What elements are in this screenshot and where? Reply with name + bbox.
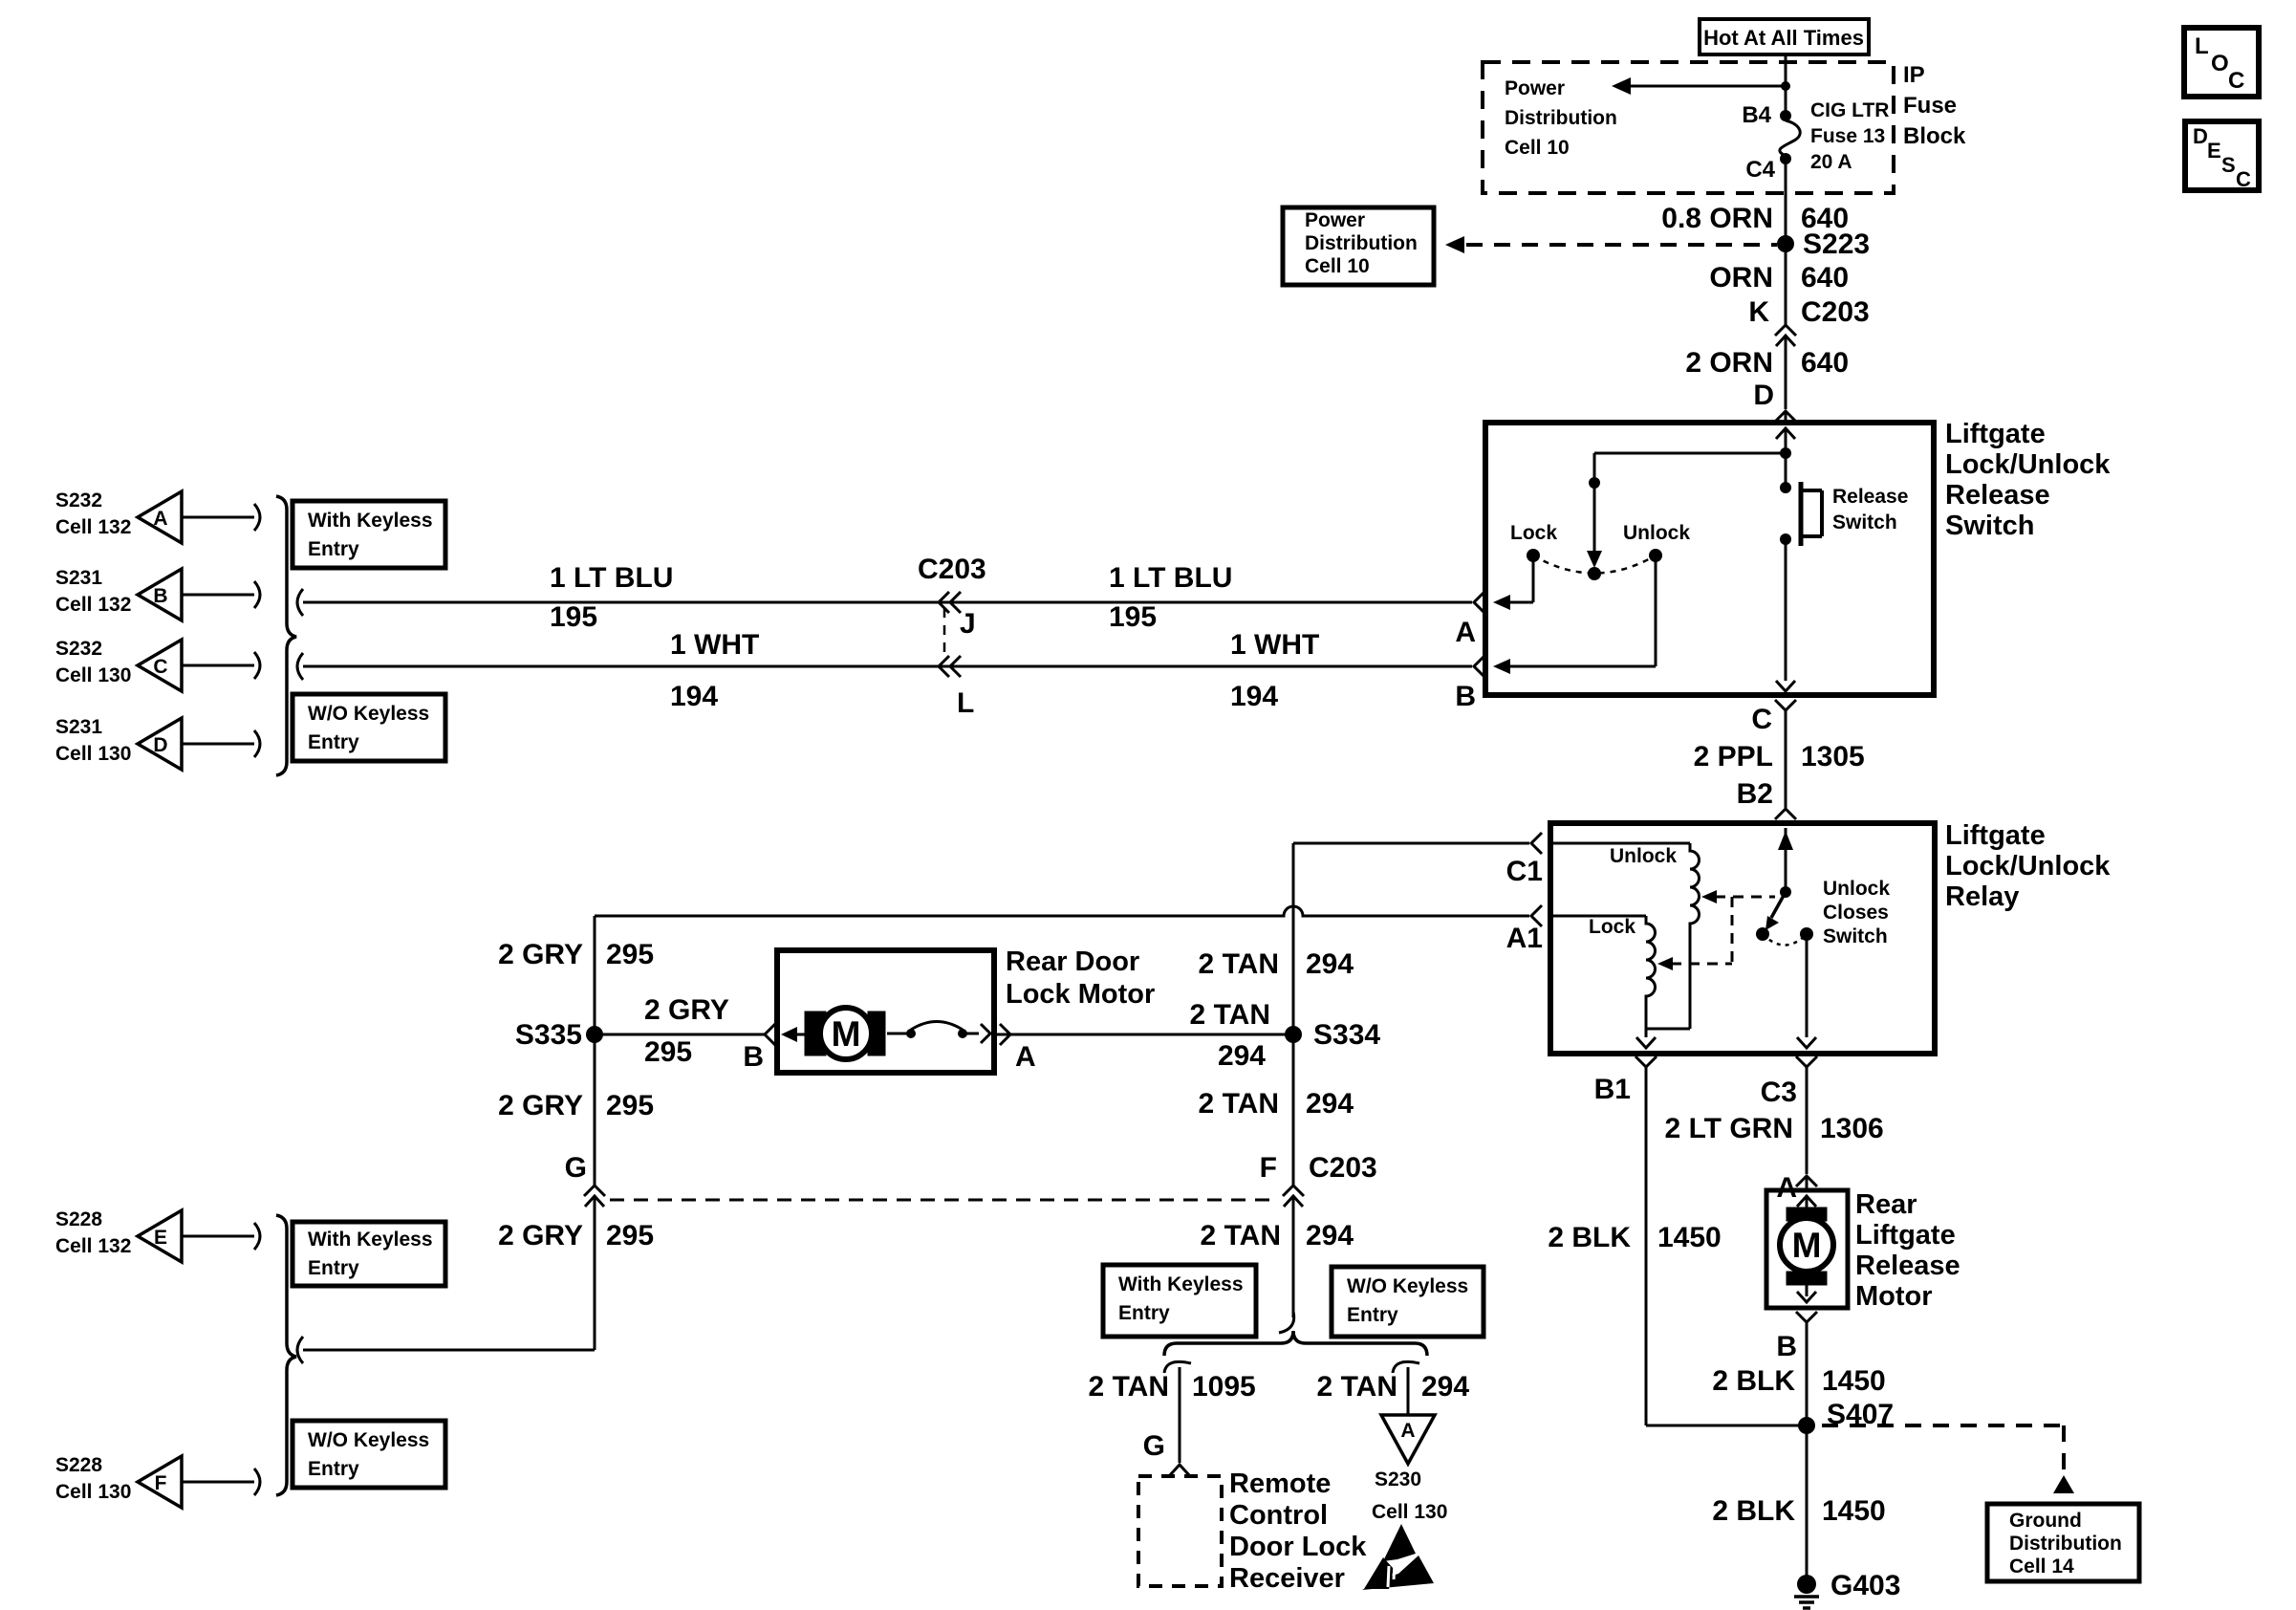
dashed link J to L [943, 608, 946, 660]
svg-text:2 BLK: 2 BLK [1712, 1365, 1795, 1397]
pin B1 chevron [1635, 1056, 1657, 1067]
relay contact dot (left) [1756, 927, 1769, 941]
svg-text:E: E [154, 1227, 167, 1249]
left branch pigtail [1164, 1361, 1191, 1373]
pin B label (release motor) [1776, 1331, 1797, 1362]
svg-text:2 TAN: 2 TAN [1317, 1371, 1397, 1403]
pin B label (motor) [743, 1041, 764, 1073]
svg-text:G: G [565, 1152, 587, 1184]
svg-text:2 TAN: 2 TAN [1190, 999, 1270, 1031]
svg-text:Liftgate: Liftgate [1945, 820, 2046, 851]
svg-text:640: 640 [1801, 347, 1849, 379]
svg-text:S231: S231 [55, 716, 102, 738]
ground G403 [1794, 1575, 1819, 1608]
Remote Control Door Lock Receiver dashed box [1138, 1476, 1222, 1586]
label 194 (right) [1230, 681, 1278, 712]
svg-text:Entry: Entry [308, 731, 359, 753]
common contact dot [1588, 567, 1601, 580]
option split brace [1164, 1331, 1427, 1356]
name Liftgate Lock/Unlock Release Switch [1945, 419, 2111, 541]
linkage dashed (unlock) [1701, 890, 1775, 903]
contact travel dashed arc [1533, 555, 1656, 574]
pin A1 label [1506, 923, 1543, 954]
motor arrow left [781, 1027, 808, 1042]
release motor brush top [1787, 1207, 1827, 1221]
relay contact dotted arc [1763, 934, 1807, 946]
svg-text:Lock/Unlock: Lock/Unlock [1945, 851, 2111, 881]
brace exit hook [297, 1337, 303, 1363]
connector chevron pin A [1796, 1176, 1817, 1190]
release motor brush bottom [1787, 1272, 1827, 1285]
name Remote Control Door Lock Receiver [1229, 1469, 1367, 1594]
pin A label [1455, 617, 1476, 648]
svg-text:A1: A1 [1506, 923, 1543, 954]
wire ORN 640 (S223 to C203) [1785, 244, 1787, 325]
svg-text:Cell 130: Cell 130 [55, 1481, 131, 1503]
svg-text:S228: S228 [55, 1208, 102, 1230]
destination S231 Cell 130 triangle D [55, 716, 260, 770]
pin A chevron [1474, 592, 1484, 613]
grouping brace E-F [276, 1215, 296, 1495]
label C203 (in-line) [918, 554, 986, 585]
svg-text:With Keyless: With Keyless [308, 1229, 433, 1251]
linkage dashed (vertical) [1731, 897, 1734, 964]
svg-text:S228: S228 [55, 1454, 102, 1476]
label 2 TAN 1095 [1089, 1371, 1256, 1403]
wire coil common to B1 [1636, 1029, 1656, 1048]
svg-text:W/O Keyless: W/O Keyless [308, 703, 429, 725]
wire B1 down [1645, 1067, 1648, 1425]
svg-text:Release: Release [1945, 480, 2050, 511]
pin C3 chevron [1796, 1056, 1817, 1067]
svg-text:S232: S232 [55, 490, 102, 511]
wire brace to S335 column [303, 1349, 595, 1352]
svg-text:D: D [2193, 124, 2208, 148]
wire S334 down to C203 F [1292, 1034, 1295, 1186]
svg-text:Power: Power [1305, 209, 1365, 231]
ESD sensitive symbol [1362, 1524, 1434, 1590]
label Lock [1510, 522, 1557, 544]
svg-text:Motor: Motor [1855, 1281, 1933, 1312]
splice S334 [1285, 1026, 1302, 1043]
junction dot [1589, 477, 1600, 489]
svg-text:K: K [1748, 296, 1769, 328]
svg-text:D: D [153, 734, 167, 756]
pin A1 chevron [1531, 905, 1542, 926]
wire motor to S334 [994, 1033, 1293, 1036]
svg-text:Lock Motor: Lock Motor [1006, 979, 1155, 1010]
W/O Keyless Entry box (center) [1332, 1267, 1484, 1337]
svg-text:S223: S223 [1803, 228, 1870, 260]
svg-text:195: 195 [1109, 601, 1157, 633]
label S334 [1313, 1019, 1380, 1051]
svg-text:0.8 ORN: 0.8 ORN [1661, 203, 1773, 234]
label 2 GRY 295 (below S335) [498, 1090, 654, 1121]
release motor arrow down [1797, 1285, 1816, 1302]
svg-text:2 LT GRN: 2 LT GRN [1665, 1113, 1793, 1144]
pin B chevron (motor) [765, 1024, 775, 1045]
svg-text:1306: 1306 [1820, 1113, 1884, 1144]
splice S223 [1777, 235, 1794, 252]
svg-text:Remote: Remote [1229, 1469, 1331, 1499]
wire C1 down to S334 [1292, 843, 1295, 1034]
Rear Liftgate Release Motor box [1766, 1190, 1848, 1308]
motor brush left [805, 1012, 826, 1055]
release motor arrow up [1797, 1196, 1816, 1207]
svg-text:Block: Block [1903, 123, 1966, 149]
With Keyless Entry box (center) [1103, 1265, 1256, 1337]
label Unlock Closes Switch [1823, 878, 1890, 947]
fuse F13 element (squiggle) [1780, 120, 1800, 155]
motor brush right [868, 1012, 885, 1055]
label 2 GRY 295 (motor side) [644, 994, 729, 1068]
svg-text:194: 194 [1230, 681, 1278, 712]
destination triangle A (S230) [1381, 1415, 1435, 1464]
connector C203 label [1801, 296, 1870, 328]
svg-text:Rear: Rear [1855, 1189, 1917, 1220]
wire 0.8 ORN 640 (fuse to S223) [1785, 159, 1787, 244]
Rear Door Lock Motor box [777, 950, 994, 1073]
svg-text:E: E [2207, 139, 2221, 163]
connector chevron pin C [1775, 700, 1796, 808]
name Rear Door Lock Motor [1006, 946, 1155, 1010]
label ORN [1709, 262, 1773, 294]
svg-text:Lock/Unlock: Lock/Unlock [1945, 449, 2111, 480]
svg-text:Fuse: Fuse [1903, 93, 1957, 119]
linkage dashed (lock) [1657, 957, 1732, 970]
IP Fuse Block dashed box [1483, 62, 1894, 193]
label 1 WHT (left) [670, 629, 759, 661]
svg-text:294: 294 [1306, 948, 1354, 980]
pin L label [957, 687, 974, 719]
svg-text:S: S [2221, 153, 2236, 177]
connector chevron at pin D [1775, 411, 1796, 423]
svg-text:S232: S232 [55, 638, 102, 660]
svg-text:C203: C203 [918, 554, 986, 585]
pin C4 label [1745, 157, 1775, 183]
pin J label [960, 608, 976, 640]
svg-text:C: C [1751, 704, 1772, 735]
svg-text:Liftgate: Liftgate [1855, 1220, 1956, 1251]
svg-text:Cell 10: Cell 10 [1305, 255, 1370, 277]
pin K label [1748, 296, 1769, 328]
svg-text:Cell 14: Cell 14 [2009, 1556, 2074, 1577]
DESC reference box [2185, 121, 2259, 191]
label 0.8 ORN [1661, 203, 1773, 234]
svg-text:1095: 1095 [1192, 1371, 1256, 1403]
pin D label [1753, 380, 1774, 411]
wire A1 with hop over S334 wire [595, 906, 1529, 916]
pin A label (motor) [1015, 1041, 1036, 1073]
svg-text:B: B [743, 1041, 764, 1073]
terminal dot B4 [1780, 110, 1791, 121]
switch actuator arrow [1587, 483, 1602, 568]
svg-text:1450: 1450 [1822, 1495, 1886, 1527]
grouping brace A-D [276, 496, 296, 775]
wire to S230 [1407, 1367, 1410, 1415]
destination S232 Cell 132 triangle A [55, 490, 260, 543]
in-line connector L (double chevron) [939, 656, 961, 677]
svg-text:D: D [1753, 380, 1774, 411]
svg-text:1 LT BLU: 1 LT BLU [550, 562, 673, 594]
label S230 Cell 130 [1372, 1469, 1447, 1523]
junction dot on feed wire [1781, 81, 1790, 91]
label 2 TAN 294 (motor side) [1190, 999, 1270, 1072]
name Liftgate Lock/Unlock Relay [1945, 820, 2111, 912]
release motor M circle [1780, 1218, 1833, 1272]
label 2 GRY 295 (below G) [498, 1220, 654, 1251]
svg-text:1 LT BLU: 1 LT BLU [1109, 562, 1232, 594]
relay switch pivot dot [1780, 886, 1791, 898]
svg-text:C: C [2228, 68, 2244, 94]
wire 1 WHT 194 (left segment) [303, 665, 1472, 668]
svg-text:B: B [153, 585, 167, 607]
svg-text:Entry: Entry [308, 1257, 359, 1279]
svg-text:G: G [1143, 1430, 1165, 1462]
svg-text:A: A [1015, 1041, 1036, 1073]
With Keyless Entry box (bottom left) [292, 1222, 445, 1286]
pin B4 label [1742, 102, 1771, 128]
wire A1 down to S335 [594, 916, 596, 1034]
label 1 LT BLU (right) [1109, 562, 1232, 594]
svg-text:Switch: Switch [1832, 511, 1897, 533]
Liftgate Lock/Unlock Release Switch box [1485, 423, 1934, 695]
svg-text:Door Lock: Door Lock [1229, 1532, 1367, 1562]
label 2 TAN 294 (below F) [1201, 1220, 1354, 1251]
label 2 BLK 1450 (release motor to S407) [1712, 1365, 1885, 1397]
label 194 (left) [670, 681, 718, 712]
svg-text:2 TAN: 2 TAN [1199, 948, 1279, 980]
motor contact dots and arc [906, 1022, 967, 1039]
label CIG LTR Fuse 13 20 A [1810, 99, 1889, 173]
svg-text:Unlock: Unlock [1823, 878, 1890, 900]
svg-text:Cell 130: Cell 130 [1372, 1501, 1447, 1523]
feed arrow to Power Distribution [1612, 77, 1786, 95]
svg-text:B: B [1455, 681, 1476, 712]
svg-text:640: 640 [1801, 262, 1849, 294]
svg-text:Unlock: Unlock [1610, 845, 1677, 867]
svg-text:With Keyless: With Keyless [1118, 1273, 1244, 1295]
svg-text:Entry: Entry [308, 1458, 359, 1480]
label Release Switch [1832, 486, 1908, 533]
wire release switch to pin C [1776, 539, 1795, 691]
destination S232 Cell 130 triangle C [55, 638, 260, 691]
start hook of WHT wire [297, 653, 303, 680]
motor contact wire [887, 1033, 911, 1035]
svg-text:Ground: Ground [2009, 1510, 2082, 1532]
pin A label (release motor) [1776, 1172, 1797, 1204]
pin C1 label [1506, 856, 1543, 887]
svg-text:Closes: Closes [1823, 902, 1889, 924]
svg-text:F: F [1260, 1152, 1277, 1184]
svg-text:B: B [1776, 1331, 1797, 1362]
label Power Distribution Cell 10 (in fuse block) [1505, 77, 1617, 159]
svg-text:Lock: Lock [1510, 522, 1557, 544]
svg-text:Liftgate: Liftgate [1945, 419, 2046, 449]
svg-text:C4: C4 [1745, 157, 1775, 183]
pin B2 label [1737, 778, 1773, 810]
label Lock (coil) [1589, 916, 1635, 938]
label 2 BLK 1450 (to ground) [1712, 1495, 1885, 1527]
wire end pigtail above brace [1279, 1312, 1294, 1333]
svg-text:C: C [153, 656, 167, 678]
svg-text:F: F [155, 1472, 167, 1494]
svg-text:Cell 130: Cell 130 [55, 743, 131, 765]
svg-text:Relay: Relay [1945, 881, 2019, 912]
svg-text:B1: B1 [1594, 1074, 1631, 1105]
relay switch blade [1765, 892, 1786, 930]
destination S228 Cell 130 triangle F [55, 1454, 260, 1508]
svg-text:2 TAN: 2 TAN [1201, 1220, 1281, 1251]
label 195 (right) [1109, 601, 1157, 633]
W/O Keyless Entry box (bottom left) [292, 1421, 445, 1488]
pin F label [1260, 1152, 1277, 1184]
wire unlock contact to pin B [1493, 555, 1656, 674]
label 2 TAN 294 (below S334) [1199, 1088, 1354, 1120]
wire lock contact to pin A [1493, 555, 1533, 610]
svg-text:S335: S335 [515, 1019, 582, 1051]
label G403 [1830, 1570, 1900, 1601]
LOC reference box [2184, 28, 2259, 97]
pin A chevron (motor) [1000, 1024, 1010, 1045]
svg-text:194: 194 [670, 681, 718, 712]
svg-text:Receiver: Receiver [1229, 1563, 1345, 1594]
wire to Remote Control receiver [1169, 1367, 1190, 1476]
svg-text:2 GRY: 2 GRY [644, 994, 729, 1026]
svg-text:294: 294 [1306, 1220, 1354, 1251]
svg-text:W/O Keyless: W/O Keyless [308, 1429, 429, 1451]
W/O Keyless Entry box (top left) [292, 694, 445, 761]
svg-text:M: M [832, 1014, 861, 1054]
svg-text:Switch: Switch [1823, 925, 1888, 947]
Hot At All Times box [1700, 19, 1869, 54]
destination S228 Cell 132 triangle E [55, 1208, 260, 1262]
motor arrow right [963, 1024, 990, 1043]
svg-text:2 GRY: 2 GRY [498, 939, 583, 970]
connector C203 label (F) [1309, 1152, 1377, 1184]
pin G label (receiver) [1143, 1430, 1165, 1462]
svg-text:2 PPL: 2 PPL [1694, 741, 1773, 772]
svg-text:G403: G403 [1830, 1570, 1900, 1601]
svg-text:1 WHT: 1 WHT [670, 629, 759, 661]
svg-text:A: A [1455, 617, 1476, 648]
internal wire to lock/unlock branch [1594, 453, 1786, 483]
wire S335 down to C203 G [594, 1034, 596, 1186]
wire 2 ORN 640 (C203 to switch) [1785, 386, 1787, 409]
svg-text:A: A [1400, 1420, 1415, 1442]
in-line connector G [584, 1186, 605, 1350]
Ground Distribution Cell 14 box [1987, 1504, 2139, 1581]
label 640 [1801, 262, 1849, 294]
svg-text:2 BLK: 2 BLK [1712, 1495, 1795, 1527]
svg-text:CIG LTR: CIG LTR [1810, 99, 1889, 121]
relay entry arrow B2 [1778, 828, 1793, 892]
wire contact to C3 [1797, 934, 1816, 1048]
svg-text:2 GRY: 2 GRY [498, 1090, 583, 1121]
destination S231 Cell 132 triangle B [55, 567, 260, 620]
entry arrow pin D inside switch [1776, 428, 1795, 453]
Lock contact dot [1527, 549, 1540, 562]
svg-text:1 WHT: 1 WHT [1230, 629, 1319, 661]
wire B1 to S407 [1646, 1425, 1807, 1427]
label 2 TAN 294 (S230 branch) [1317, 1371, 1470, 1403]
svg-text:Entry: Entry [1347, 1304, 1398, 1326]
Unlock contact dot [1649, 549, 1662, 562]
wire from Hot At All Times into fuse block [1785, 54, 1787, 115]
svg-text:W/O Keyless: W/O Keyless [1347, 1275, 1468, 1297]
svg-text:295: 295 [606, 939, 654, 970]
svg-text:L: L [957, 687, 974, 719]
in-line connector C203 pin K/D [1775, 325, 1796, 386]
pin C1 chevron [1293, 833, 1542, 854]
svg-text:195: 195 [550, 601, 597, 633]
svg-text:1450: 1450 [1657, 1222, 1722, 1253]
svg-text:Distribution: Distribution [2009, 1533, 2122, 1555]
pin C label [1751, 704, 1772, 735]
svg-text:C203: C203 [1801, 296, 1870, 328]
svg-text:2 BLK: 2 BLK [1548, 1222, 1631, 1253]
svg-text:20 A: 20 A [1810, 151, 1852, 173]
label S335 [515, 1019, 582, 1051]
svg-text:B4: B4 [1742, 102, 1771, 128]
svg-text:Cell 132: Cell 132 [55, 1235, 131, 1257]
dashed wire to Power Distribution cell [1445, 236, 1777, 253]
wire C3 to release motor [1806, 1067, 1809, 1174]
svg-text:Lock: Lock [1589, 916, 1635, 938]
label 2 TAN 294 (above S334) [1199, 948, 1354, 980]
svg-text:Entry: Entry [308, 538, 359, 560]
wire 1 LT BLU 195 (left segment) [303, 601, 1472, 604]
in-line connector J (double chevron) [939, 592, 961, 613]
svg-text:Control: Control [1229, 1500, 1328, 1531]
svg-text:1450: 1450 [1822, 1365, 1886, 1397]
wire 2 PPL 1305 (switch to relay) [1694, 741, 1865, 772]
svg-text:S334: S334 [1313, 1019, 1380, 1051]
svg-text:294: 294 [1218, 1040, 1266, 1072]
svg-text:295: 295 [606, 1220, 654, 1251]
svg-text:IP: IP [1903, 62, 1925, 88]
svg-text:Switch: Switch [1945, 511, 2034, 541]
svg-text:2 GRY: 2 GRY [498, 1220, 583, 1251]
svg-text:295: 295 [606, 1090, 654, 1121]
relay contact dot (right) [1800, 927, 1813, 941]
label 640 [1801, 347, 1849, 379]
label 2 GRY 295 (above S335) [498, 939, 654, 970]
Liftgate Lock/Unlock Relay box [1550, 823, 1935, 1054]
svg-text:Release: Release [1855, 1251, 1960, 1281]
svg-text:1305: 1305 [1801, 741, 1865, 772]
svg-text:295: 295 [644, 1036, 692, 1068]
in-line connector F [1283, 1186, 1304, 1317]
release switch plate [1801, 482, 1822, 546]
svg-text:Entry: Entry [1118, 1302, 1170, 1324]
svg-text:Unlock: Unlock [1623, 522, 1690, 544]
svg-text:C3: C3 [1761, 1077, 1797, 1108]
wire S407 to G403 [1806, 1425, 1809, 1587]
svg-text:C: C [2236, 167, 2251, 191]
label Unlock [1623, 522, 1690, 544]
label 640 [1801, 203, 1849, 234]
pin C3 label [1761, 1077, 1797, 1108]
svg-text:With Keyless: With Keyless [308, 510, 433, 532]
svg-text:Power: Power [1505, 77, 1565, 99]
svg-text:M: M [1792, 1226, 1822, 1265]
label 2 BLK 1450 (B1 wire) [1548, 1222, 1721, 1253]
label S407 [1827, 1399, 1894, 1430]
label 1 LT BLU (left) [550, 562, 673, 594]
label 2 LT GRN 1306 [1665, 1113, 1884, 1144]
Power Distribution Cell 10 box [1283, 207, 1434, 285]
